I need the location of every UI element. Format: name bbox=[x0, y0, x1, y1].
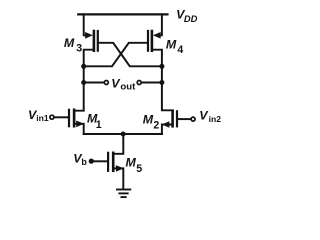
terminal circle Vout left bbox=[104, 81, 108, 85]
wire Vin2 gate lead bbox=[178, 118, 190, 120]
wire M4 source to rail bbox=[158, 14, 162, 35]
ground bar 3 bbox=[121, 196, 125, 198]
svg-text:M: M bbox=[126, 155, 137, 169]
svg-text:b: b bbox=[81, 157, 87, 167]
transistor M2 gate bar bbox=[176, 111, 178, 126]
junction dot node X (M3 drain / M4 gate) bbox=[81, 64, 86, 69]
wire Vout left stub bbox=[84, 82, 104, 84]
transistor M5 channel bar bbox=[112, 153, 115, 171]
svg-text:in1: in1 bbox=[36, 113, 49, 123]
wire M4 drain down right branch to M2 drain bbox=[153, 50, 173, 111]
svg-text:1: 1 bbox=[96, 119, 102, 131]
junction dot node Y (M4 drain / M3 gate) bbox=[159, 64, 164, 69]
svg-text:M: M bbox=[143, 113, 154, 127]
wire M5 source to ground bbox=[114, 168, 123, 188]
wire M3 drain down left branch to M1 drain bbox=[75, 50, 94, 111]
wire M2 source to tail bbox=[162, 125, 171, 135]
wire M3 source to rail bbox=[84, 14, 88, 35]
wire M5 drain to tail bbox=[114, 134, 123, 154]
wire Vin1 gate lead bbox=[55, 116, 68, 118]
arrow M2 source (NMOS, points left) bbox=[162, 121, 170, 128]
transistor M1 gate bar bbox=[68, 110, 70, 126]
transistor M2 channel bar bbox=[171, 111, 174, 126]
transistor M1 channel bar bbox=[73, 110, 76, 126]
svg-text:5: 5 bbox=[136, 163, 142, 175]
transistor M4 gate bar bbox=[147, 31, 149, 51]
arrow M5 source (NMOS, points right) bbox=[116, 165, 124, 172]
junction dot Vout left bbox=[81, 80, 86, 85]
terminal dot Vb bbox=[89, 159, 94, 164]
arrow M3 source (PMOS, points right into channel) bbox=[85, 32, 93, 39]
svg-text:2: 2 bbox=[153, 119, 159, 131]
transistor M5 gate bar bbox=[107, 153, 109, 171]
terminal circle Vout right bbox=[137, 81, 141, 85]
wire M3 gate cross-coupled to M4 drain node bbox=[99, 43, 162, 67]
wire tail node line bbox=[84, 133, 162, 135]
wire Vout right stub bbox=[142, 82, 162, 84]
wire Vb gate lead bbox=[93, 160, 107, 162]
transistor M4 channel bar bbox=[151, 31, 154, 51]
wire M1 source to tail bbox=[75, 124, 83, 134]
svg-text:out: out bbox=[120, 82, 136, 93]
junction dot Vout right bbox=[159, 80, 164, 85]
ground bar 1 bbox=[117, 189, 130, 191]
terminal circle Vin2 bbox=[191, 117, 195, 121]
ground bar 2 bbox=[119, 192, 127, 194]
svg-text:in2: in2 bbox=[209, 114, 222, 124]
transistor M3 channel bar bbox=[93, 31, 96, 51]
svg-text:DD: DD bbox=[184, 13, 198, 24]
wire M4 gate cross-coupled to M3 drain node bbox=[84, 43, 147, 67]
terminal circle Vin1 bbox=[50, 115, 54, 119]
svg-text:4: 4 bbox=[177, 44, 183, 56]
VDD rail bbox=[78, 13, 167, 15]
junction dot tail node bbox=[121, 132, 126, 137]
transistor M3 gate bar bbox=[97, 31, 99, 51]
arrow M1 source (NMOS, points right) bbox=[76, 121, 84, 128]
svg-text:M: M bbox=[64, 36, 75, 50]
arrow M4 source (PMOS, points left into channel) bbox=[153, 32, 161, 39]
svg-text:M: M bbox=[166, 37, 177, 51]
svg-text:3: 3 bbox=[76, 43, 82, 55]
